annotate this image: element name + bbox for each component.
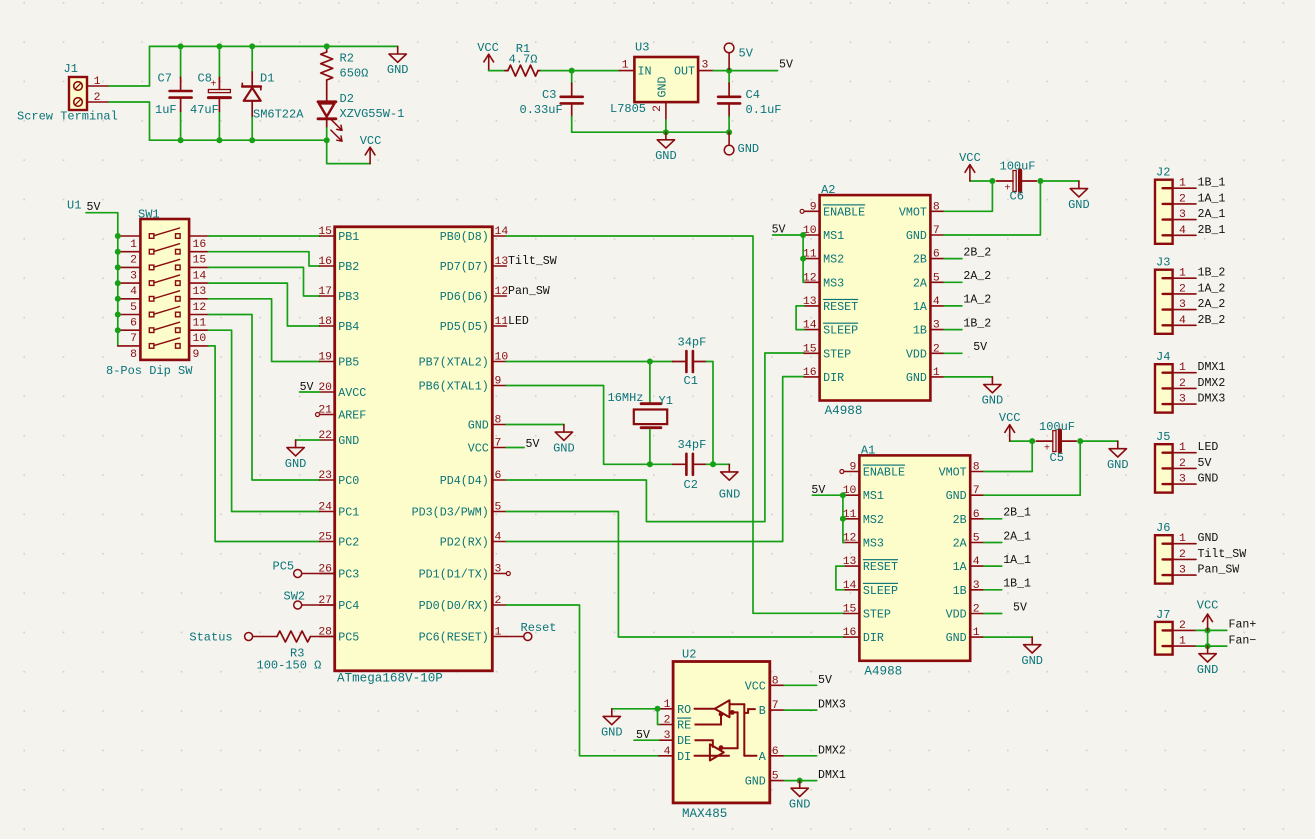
- svg-text:8: 8: [130, 349, 137, 361]
- svg-text:A4988: A4988: [825, 404, 863, 418]
- junction SW1 5V bus pin 4: [115, 280, 121, 286]
- svg-text:16: 16: [193, 239, 207, 251]
- svg-text:15: 15: [193, 255, 207, 267]
- junction C2 right: [710, 461, 716, 467]
- SW1 pin 8 (left): [118, 345, 141, 347]
- svg-text:MS3: MS3: [823, 276, 844, 290]
- svg-text:8: 8: [973, 462, 980, 474]
- svg-text:16: 16: [318, 256, 332, 268]
- U1 pin 18 PB4: [320, 325, 335, 327]
- svg-text:15: 15: [318, 226, 332, 238]
- J3 pin 4: [1163, 324, 1173, 326]
- svg-text:C4: C4: [746, 88, 760, 102]
- svg-text:1: 1: [1179, 442, 1186, 454]
- svg-text:STEP: STEP: [863, 608, 891, 622]
- svg-text:AVCC: AVCC: [338, 386, 366, 400]
- power symbol GND right of C6: [1078, 181, 1080, 189]
- A1 pin 3 1B: [970, 589, 984, 591]
- U1 pin 5 PD3(D3/PWM): [492, 511, 506, 513]
- svg-text:15: 15: [803, 343, 817, 355]
- J1 pin 2: [87, 101, 109, 103]
- junction D2 bottom rail: [324, 137, 330, 143]
- svg-text:5: 5: [130, 302, 137, 314]
- wire A1 VMOT cap rail: [1010, 440, 1032, 442]
- SW1 pin 9 (right): [189, 345, 208, 347]
- svg-text:21: 21: [318, 405, 332, 417]
- svg-text:STEP: STEP: [823, 347, 851, 361]
- A2 pin 12 MS3: [804, 281, 820, 283]
- svg-text:1: 1: [933, 367, 940, 379]
- svg-text:4: 4: [933, 296, 940, 308]
- wire A1 1A stub: [984, 565, 1002, 567]
- wire bottom rail to VCC: [327, 140, 370, 163]
- svg-text:2: 2: [1179, 283, 1186, 295]
- junction OUT node: [726, 68, 732, 74]
- U1 pin 15 PB1: [320, 235, 335, 237]
- svg-text:1: 1: [664, 699, 671, 711]
- wire GND pin22: [296, 439, 320, 441]
- power symbol VCC bottom-left: [369, 147, 371, 163]
- svg-text:C3: C3: [542, 88, 556, 102]
- wire A2 2A stub: [944, 281, 962, 283]
- svg-text:GND: GND: [1021, 654, 1043, 668]
- power symbol GND right of C5: [1117, 441, 1119, 449]
- junction A2 cap right: [1037, 178, 1043, 184]
- power symbol GND at A1 pin1: [1031, 637, 1033, 645]
- wire PD0 to U2 DI: [506, 605, 659, 756]
- svg-text:DIR: DIR: [823, 371, 844, 385]
- svg-text:5: 5: [933, 272, 940, 284]
- svg-text:ENABLE: ENABLE: [863, 466, 905, 480]
- svg-text:4: 4: [1179, 315, 1186, 327]
- U1 pin 17 PB3: [320, 295, 335, 297]
- wire U2 A to DMX2: [784, 755, 816, 757]
- junction SW1 5V bus pin 3: [115, 264, 121, 270]
- J5 pin 2: [1163, 467, 1173, 469]
- U3 pin 3 OUT: [698, 70, 713, 72]
- svg-text:GND: GND: [468, 419, 489, 433]
- U1 pin 24 PC1: [320, 511, 335, 513]
- U1 pin 26 PC3: [320, 573, 335, 575]
- svg-text:2B_1: 2B_1: [1003, 507, 1031, 520]
- junction A1 MS1: [840, 492, 846, 498]
- junction crystal top: [647, 359, 653, 365]
- U1 pin 21 AREF: [320, 414, 335, 416]
- svg-text:MS3: MS3: [863, 537, 884, 551]
- svg-text:PC1: PC1: [338, 506, 359, 520]
- A2 pin 2 VDD: [930, 352, 944, 354]
- svg-text:GND: GND: [1197, 663, 1219, 677]
- svg-text:9: 9: [850, 462, 857, 474]
- svg-text:Y1: Y1: [659, 394, 673, 408]
- junction SW1 5V bus pin 7: [115, 327, 121, 333]
- svg-text:2A: 2A: [953, 537, 968, 551]
- svg-text:19: 19: [318, 352, 332, 364]
- svg-text:OUT: OUT: [674, 65, 695, 79]
- A1 pin 11 MS2: [844, 518, 860, 520]
- svg-text:1A_2: 1A_2: [963, 294, 991, 307]
- svg-text:MS2: MS2: [823, 253, 844, 267]
- svg-text:100uF: 100uF: [1039, 420, 1075, 434]
- U2 pin 8 VCC: [770, 684, 785, 686]
- svg-text:2: 2: [130, 255, 137, 267]
- J7 pin 1: [1163, 645, 1173, 647]
- J4 pin 1: [1163, 372, 1173, 374]
- svg-text:2A: 2A: [913, 276, 928, 290]
- J4 pin 2: [1163, 387, 1173, 389]
- svg-text:GND: GND: [946, 489, 967, 503]
- LED D2: [318, 100, 336, 103]
- resistor R2: [326, 46, 328, 52]
- A2 pin 4 1A: [930, 305, 944, 307]
- svg-text:3: 3: [1179, 209, 1186, 221]
- svg-text:GND: GND: [285, 457, 307, 471]
- svg-text:VMOT: VMOT: [899, 205, 927, 219]
- A2 pin 6 2B: [930, 258, 944, 260]
- A1 pin 4 1A: [970, 565, 984, 567]
- svg-text:DMX2: DMX2: [1198, 377, 1226, 390]
- junction J7 pin2: [1205, 627, 1211, 633]
- SW1 switch element 5: [149, 297, 154, 302]
- svg-text:2: 2: [94, 92, 101, 104]
- junction A1 MS2: [840, 516, 846, 522]
- power symbol GND at pin22: [295, 440, 297, 448]
- svg-text:VCC: VCC: [1197, 599, 1219, 613]
- J1 pin 1: [87, 85, 109, 87]
- junction ground rail U3: [663, 129, 669, 135]
- A1 pin 2 VDD: [970, 613, 984, 615]
- svg-text:1: 1: [1179, 636, 1186, 648]
- svg-text:VCC: VCC: [999, 411, 1021, 425]
- power symbol GND top-left: [397, 46, 399, 54]
- svg-text:MS1: MS1: [863, 489, 884, 503]
- svg-text:9: 9: [193, 349, 200, 361]
- svg-text:C1: C1: [684, 374, 698, 388]
- svg-text:5V: 5V: [973, 341, 987, 354]
- power symbol GND at U2 RO: [611, 709, 613, 717]
- svg-text:GND: GND: [906, 229, 927, 243]
- SW1 switch element 3: [149, 265, 154, 270]
- svg-text:VCC: VCC: [468, 442, 489, 456]
- U2 receiver input node: [730, 710, 735, 715]
- svg-text:GND: GND: [656, 76, 670, 97]
- svg-text:SLEEP: SLEEP: [823, 324, 858, 338]
- svg-text:GND: GND: [719, 488, 741, 502]
- SW1 switch element 4: [149, 281, 154, 286]
- SW1 pin 13 (right): [189, 282, 208, 284]
- svg-text:13: 13: [495, 256, 509, 268]
- svg-text:1A: 1A: [953, 560, 968, 574]
- wire SW1 15 to PB2: [208, 252, 319, 266]
- wire A2 RESET-SLEEP: [796, 306, 804, 330]
- U1 pin 11 PD5(D5): [492, 325, 506, 327]
- svg-text:J2: J2: [1156, 166, 1170, 180]
- wire A2 GND7 to cap: [944, 181, 1040, 235]
- wire VCC pin7 to 5V: [506, 447, 524, 449]
- wire 5V to U2 DE: [634, 739, 659, 741]
- resistor R1: [505, 70, 508, 72]
- wire SW1 14 to PB3: [208, 267, 319, 296]
- A2 pin 8 VMOT: [930, 210, 944, 212]
- wire SW1 16 to PB1: [208, 235, 319, 237]
- svg-text:GND: GND: [982, 394, 1004, 408]
- svg-text:12: 12: [193, 302, 207, 314]
- svg-text:7: 7: [772, 700, 779, 712]
- A1 pin 8 VMOT: [970, 471, 984, 473]
- svg-text:ENABLE: ENABLE: [823, 205, 865, 219]
- svg-text:100-150 Ω: 100-150 Ω: [257, 659, 322, 673]
- wire A2 VMOT to VMOT rail: [944, 181, 992, 211]
- svg-text:3: 3: [702, 60, 709, 72]
- svg-text:18: 18: [318, 316, 332, 328]
- junction U2 GND: [797, 778, 803, 784]
- svg-text:1: 1: [495, 627, 502, 639]
- svg-text:1B_1: 1B_1: [1198, 177, 1226, 190]
- SW1 pin 1 (left): [118, 235, 141, 237]
- svg-text:13: 13: [193, 286, 207, 298]
- junction A1 VMOT rail: [1029, 438, 1035, 444]
- svg-text:2B_2: 2B_2: [963, 246, 991, 259]
- junction C7 bottom: [178, 137, 184, 143]
- svg-text:ATmega168V-10P: ATmega168V-10P: [337, 672, 443, 686]
- svg-text:1B: 1B: [913, 324, 927, 338]
- U2 pin 1 RO: [659, 708, 673, 710]
- wire PD4 to A2 STEP: [506, 353, 804, 522]
- U2 internal vertical 2: [743, 704, 745, 756]
- U1 pin 20 AVCC: [320, 391, 335, 393]
- junction SW1 5V bus pin 2: [115, 249, 121, 255]
- svg-text:2B_1: 2B_1: [1198, 224, 1226, 237]
- wire A2 GND1: [944, 376, 992, 378]
- svg-text:Fan−: Fan−: [1229, 634, 1257, 647]
- svg-text:2B: 2B: [913, 253, 927, 267]
- svg-text:LED: LED: [508, 315, 529, 328]
- svg-text:5: 5: [772, 771, 779, 783]
- wire A1 2A stub: [984, 542, 1002, 544]
- svg-text:7: 7: [973, 485, 980, 497]
- svg-text:2: 2: [495, 595, 502, 607]
- svg-text:10: 10: [193, 333, 207, 345]
- SW1 switch element 8: [149, 344, 154, 349]
- J7 pin 2: [1163, 629, 1173, 631]
- capacitor C1: [685, 351, 688, 372]
- svg-text:J5: J5: [1156, 430, 1170, 444]
- U2 pin 3 DE: [659, 739, 673, 741]
- wire A2 VMOT cap rail: [970, 180, 993, 182]
- svg-text:0.33uF: 0.33uF: [520, 103, 563, 117]
- U2 pin 6 A: [770, 755, 785, 757]
- svg-text:GND: GND: [745, 775, 766, 789]
- wire bottom rail: [150, 139, 327, 141]
- wire A2 1A stub: [944, 305, 962, 307]
- svg-text:GND: GND: [553, 441, 575, 455]
- junction D1 top: [249, 43, 255, 49]
- J3 pin 2: [1163, 293, 1173, 295]
- svg-text:RO: RO: [677, 703, 691, 717]
- svg-text:Fan+: Fan+: [1229, 618, 1257, 631]
- junction C3 top: [569, 68, 575, 74]
- svg-text:PC3: PC3: [338, 568, 359, 582]
- U2 pin 7 B: [770, 709, 785, 711]
- svg-text:DMX1: DMX1: [818, 769, 846, 782]
- svg-text:GND: GND: [338, 434, 359, 448]
- svg-text:LED: LED: [1198, 441, 1219, 454]
- svg-text:VMOT: VMOT: [939, 466, 967, 480]
- A2 pin 13 RESET: [804, 305, 820, 307]
- U1 pin 27 PC4: [320, 604, 335, 606]
- svg-text:PD2(RX): PD2(RX): [440, 536, 489, 550]
- svg-text:PC6(RESET): PC6(RESET): [419, 631, 489, 645]
- svg-text:14: 14: [843, 580, 857, 592]
- A2 pin 9 ENABLE: [804, 210, 820, 212]
- svg-text:J4: J4: [1156, 350, 1170, 364]
- A1 pin 1 GND: [970, 636, 984, 638]
- svg-text:8-Pos Dip SW: 8-Pos Dip SW: [106, 364, 193, 378]
- U2 A pin line: [744, 755, 756, 757]
- svg-text:RE: RE: [677, 719, 691, 733]
- U1 pin 13 PD7(D7): [492, 265, 506, 267]
- svg-text:Screw Terminal: Screw Terminal: [17, 110, 118, 124]
- wire U2 GND to DMX1: [784, 780, 816, 782]
- wire SW1 12 to PB5: [208, 299, 319, 362]
- wire 5V to A2 MS1/MS2/MS3: [773, 234, 805, 236]
- AREF unconnected pin end: [316, 413, 320, 417]
- svg-text:1: 1: [1179, 178, 1186, 190]
- svg-text:100uF: 100uF: [1000, 160, 1036, 174]
- svg-text:8: 8: [772, 675, 779, 687]
- svg-text:SM6T22A: SM6T22A: [253, 108, 304, 122]
- svg-text:12: 12: [803, 272, 817, 284]
- power symbol GND at U2 pin5: [799, 781, 801, 789]
- capacitor C2: [685, 454, 688, 475]
- svg-text:DIR: DIR: [863, 631, 884, 645]
- J3 pin 3: [1163, 308, 1173, 310]
- svg-text:DMX3: DMX3: [818, 699, 846, 712]
- junction C7 top: [178, 43, 184, 49]
- svg-text:1A_1: 1A_1: [1003, 554, 1031, 567]
- svg-text:4: 4: [495, 532, 502, 544]
- svg-text:6: 6: [973, 509, 980, 521]
- U2 receiver buffer: [715, 700, 730, 717]
- svg-text:2: 2: [1179, 458, 1186, 470]
- U1 pin 10 PB7(XTAL2): [492, 361, 506, 363]
- J1 screw terminal 1: [74, 82, 83, 91]
- svg-text:GND: GND: [1068, 198, 1090, 212]
- svg-text:5V: 5V: [779, 59, 793, 72]
- wire GND pin8: [506, 424, 564, 426]
- svg-text:25: 25: [318, 532, 332, 544]
- svg-text:11: 11: [495, 316, 509, 328]
- capacitor C8 (polarized): [218, 46, 220, 78]
- svg-text:GND: GND: [789, 797, 811, 811]
- J2 pin 2: [1163, 203, 1173, 205]
- wire A2 VDD stub: [944, 352, 962, 354]
- svg-text:VCC: VCC: [360, 134, 382, 148]
- A1 pin 10 MS1: [844, 494, 860, 496]
- power symbol VCC at A2: [969, 165, 971, 181]
- wire C1 right down: [706, 362, 713, 465]
- svg-text:MS1: MS1: [823, 229, 844, 243]
- A2 pin 7 GND: [930, 234, 944, 236]
- U1 pin 16 PB2: [320, 265, 335, 267]
- wire 5V to AVCC: [300, 391, 320, 393]
- svg-text:GND: GND: [1198, 473, 1219, 486]
- svg-text:13: 13: [843, 556, 857, 568]
- svg-text:J1: J1: [64, 62, 78, 76]
- svg-text:MS2: MS2: [863, 513, 884, 527]
- wire J7 pin2 Fan+: [1196, 629, 1227, 631]
- svg-text:PD7(D7): PD7(D7): [440, 260, 489, 274]
- svg-text:1uF: 1uF: [155, 103, 177, 117]
- U2 receiver enable from RE: [695, 715, 722, 725]
- wire U2 RO to GND: [612, 708, 659, 710]
- svg-text:1: 1: [94, 76, 101, 88]
- wire PB6 to C2: [506, 386, 673, 465]
- U1 pin 1 PC6(RESET): [492, 636, 506, 638]
- J6 pin 2: [1163, 558, 1173, 560]
- svg-text:8: 8: [933, 201, 940, 213]
- svg-text:GND: GND: [655, 149, 677, 163]
- svg-text:1: 1: [130, 239, 137, 251]
- svg-text:C6: C6: [1010, 190, 1024, 204]
- svg-text:5V: 5V: [739, 47, 754, 61]
- svg-text:2: 2: [973, 604, 980, 616]
- svg-text:6: 6: [772, 746, 779, 758]
- svg-text:7: 7: [495, 438, 502, 450]
- A1 pin 5 2A: [970, 542, 984, 544]
- svg-text:Tilt_SW: Tilt_SW: [508, 255, 557, 268]
- svg-text:VDD: VDD: [906, 347, 927, 361]
- power symbol GND at pin8: [563, 425, 565, 433]
- svg-text:PD6(D6): PD6(D6): [440, 290, 489, 304]
- U2 driver buffer: [710, 744, 724, 760]
- U1 pin 28 PC5: [320, 636, 335, 638]
- J6 pin 1: [1163, 543, 1173, 545]
- wire U3 OUT to 5V: [713, 70, 777, 72]
- wire A1 VMOT to VMOT rail: [984, 441, 1032, 471]
- junction A2 VMOT rail: [989, 178, 995, 184]
- svg-text:DMX2: DMX2: [818, 744, 846, 757]
- svg-text:11: 11: [193, 318, 207, 330]
- svg-text:1: 1: [622, 60, 629, 72]
- wire U3 GND down: [665, 120, 667, 132]
- wire PD2 to A2 DIR: [506, 377, 804, 542]
- svg-text:2: 2: [1179, 193, 1186, 205]
- U3 pin 1 IN: [619, 70, 634, 72]
- U1 pin 2 PD0(D0/RX): [492, 604, 506, 606]
- svg-text:AREF: AREF: [338, 409, 366, 423]
- svg-text:14: 14: [803, 320, 817, 332]
- SW1 pin 12 (right): [189, 298, 208, 300]
- svg-text:GND: GND: [906, 371, 927, 385]
- svg-text:3: 3: [1179, 565, 1186, 577]
- svg-text:PC2: PC2: [338, 536, 359, 550]
- svg-text:6: 6: [495, 470, 502, 482]
- svg-text:J6: J6: [1156, 521, 1170, 535]
- A1 pin 6 2B: [970, 518, 984, 520]
- svg-text:GND: GND: [738, 142, 760, 156]
- svg-text:3: 3: [973, 580, 980, 592]
- A1 pin 7 GND: [970, 494, 984, 496]
- svg-text:MAX485: MAX485: [682, 807, 727, 821]
- wire A2 2B stub: [944, 258, 962, 260]
- svg-text:J3: J3: [1156, 256, 1170, 270]
- svg-text:1A: 1A: [913, 300, 928, 314]
- svg-text:U3: U3: [635, 41, 649, 55]
- wire SW1 10 to PC1: [208, 330, 319, 511]
- J2 pin 1: [1163, 187, 1173, 189]
- svg-text:PD1(D1/TX): PD1(D1/TX): [419, 568, 489, 582]
